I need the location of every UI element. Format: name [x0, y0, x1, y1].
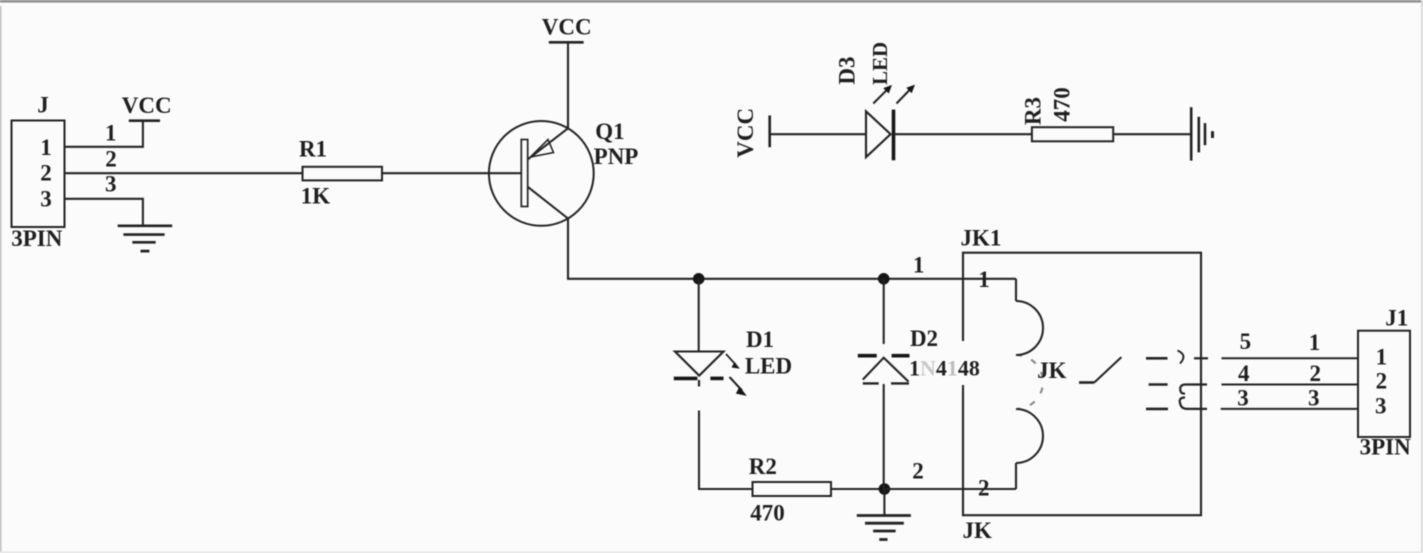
svg-text:R1: R1 [299, 137, 327, 162]
wire junction to relay pin 2 [884, 459, 1016, 490]
switch pole [1079, 357, 1121, 382]
svg-text:1N4148: 1N4148 [909, 356, 980, 381]
svg-text:470: 470 [1050, 87, 1075, 122]
svg-text:PNP: PNP [594, 144, 639, 169]
wire R1 to Q1 base [382, 172, 521, 174]
relay JK1 box [961, 226, 1201, 544]
svg-text:VCC: VCC [733, 108, 758, 158]
svg-text:2: 2 [1376, 369, 1388, 394]
relay coil [1016, 279, 1043, 489]
wire VCC to D3 [770, 133, 866, 135]
transistor Q1 [489, 119, 638, 226]
svg-text:VCC: VCC [122, 93, 172, 118]
connector J1 [1358, 306, 1411, 460]
wire J pin1 to VCC [65, 121, 143, 147]
svg-text:J: J [37, 93, 49, 118]
svg-text:3: 3 [40, 186, 52, 211]
svg-text:J1: J1 [1385, 306, 1408, 331]
junction node (R2/D2/ground/relay pin2) [879, 483, 891, 495]
svg-text:R3: R3 [1020, 97, 1045, 125]
svg-text:3PIN: 3PIN [11, 226, 63, 251]
contact row 1 (pin 5) [1146, 351, 1208, 364]
VCC symbol (top, Q1) [542, 15, 592, 129]
LED D3 [866, 85, 915, 161]
VCC symbol (D3, rotated) [733, 108, 770, 158]
svg-text:2: 2 [40, 161, 52, 186]
svg-text:D1: D1 [746, 327, 774, 352]
junction node (D1 branch) [693, 273, 705, 285]
svg-text:3PIN: 3PIN [1360, 435, 1412, 460]
diode D2 (1N4148) [858, 326, 938, 489]
VCC symbol (left) [122, 93, 172, 121]
wire relay pin4 to J1 pin2 [1222, 384, 1359, 386]
svg-text:4: 4 [1238, 361, 1250, 386]
wire D1 to R2 [699, 411, 753, 490]
wire J pin2 to R1 [65, 146, 303, 173]
ground (left) [118, 226, 173, 251]
svg-text:3: 3 [1237, 386, 1249, 411]
collector wire + bus [568, 218, 1016, 279]
junction node (D2 branch) [878, 273, 890, 285]
svg-text:LED: LED [868, 42, 892, 85]
svg-text:5: 5 [1240, 329, 1252, 354]
svg-text:1: 1 [105, 121, 117, 146]
svg-text:1: 1 [1309, 330, 1321, 355]
contact row 2 (pin 4) [1149, 385, 1207, 394]
svg-text:JK1: JK1 [961, 226, 1002, 251]
wire bus to D1 [698, 279, 700, 352]
svg-text:VCC: VCC [542, 15, 592, 40]
svg-text:R2: R2 [749, 454, 777, 479]
resistor R1 [299, 137, 382, 209]
LED D1 [674, 327, 792, 396]
svg-text:2: 2 [1310, 361, 1322, 386]
svg-text:JK: JK [963, 518, 993, 543]
wire relay pin3 to J1 pin3 [1221, 408, 1358, 410]
svg-text:3: 3 [1375, 393, 1387, 418]
labels 1 2 3 (J1 side) [1308, 330, 1321, 410]
svg-text:1: 1 [978, 267, 990, 292]
labels 5 4 3 (relay pins) [1237, 329, 1251, 411]
resistor R2 [749, 454, 831, 526]
svg-text:1K: 1K [301, 184, 331, 209]
ground (right, rotated) [1191, 107, 1212, 160]
svg-text:Q1: Q1 [595, 119, 624, 144]
wire D3 to R3 [894, 133, 1032, 135]
svg-text:2: 2 [105, 146, 117, 171]
wire relay pin5 to J1 pin1 [1222, 357, 1359, 359]
svg-text:D2: D2 [910, 326, 938, 351]
svg-text:1: 1 [913, 252, 925, 277]
svg-text:1: 1 [40, 135, 52, 160]
svg-text:1: 1 [1376, 344, 1388, 369]
svg-text:JK: JK [1037, 358, 1067, 383]
wire R2 to junction [831, 488, 884, 490]
label 1N4148 [909, 341, 1008, 385]
connector J [11, 93, 64, 252]
wire R3 to ground [1113, 133, 1191, 135]
ground (middle) [857, 489, 911, 540]
svg-text:3: 3 [105, 171, 117, 196]
svg-text:470: 470 [750, 500, 785, 525]
svg-text:LED: LED [745, 353, 792, 378]
svg-text:2: 2 [978, 476, 990, 501]
contact row 3 (pin 3) [1146, 398, 1207, 409]
svg-text:2: 2 [912, 459, 924, 484]
resistor R3 [1032, 127, 1113, 141]
svg-text:3: 3 [1308, 386, 1320, 411]
wire J pin3 to ground [65, 171, 143, 226]
wire bus to D2 [883, 279, 885, 344]
svg-text:D3: D3 [835, 57, 860, 85]
